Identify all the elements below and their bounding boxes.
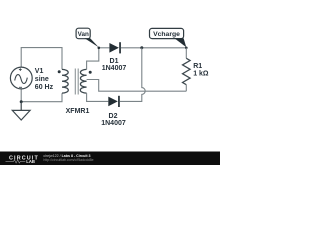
node Vcharge junction [185,47,188,50]
wire W8: D2 cathode up to junction (with hop over W6) [120,48,145,102]
svg-text:sine: sine [35,76,49,83]
R1 labels [193,63,209,77]
junction at V1 bottom / ground [20,100,23,103]
junction node at D1 output / D2 output [140,46,143,49]
D1 labels [102,58,127,72]
svg-text:XFMR1: XFMR1 [66,108,90,115]
wire W5: D1 cathode to Vcharge node [121,47,186,49]
transformer XFMR1 primary winding [62,69,68,93]
voltage source V1 [10,67,32,89]
svg-text:60 Hz: 60 Hz [35,84,54,91]
svg-text:V1: V1 [35,68,44,75]
svg-text:http://circuitlab.com/c/f5adcd: http://circuitlab.com/c/f5adcdd8e [43,158,93,162]
svg-text:1 kΩ: 1 kΩ [193,71,209,78]
wire W3: XFMR1 secondary top to node Van [87,48,99,70]
V1 value labels: V1 / sine / 60 Hz [35,68,54,91]
XFMR1 phasing dot primary [58,70,61,73]
footer CircuitLab logo [6,155,39,164]
wire W7: XFMR1 secondary bottom to D2 anode [87,93,109,101]
wire W6: XFMR1 center tap to R1 bottom [87,80,187,92]
diode D2 [108,96,119,107]
svg-text:R1: R1 [193,63,202,70]
node Van flag [76,28,99,47]
svg-text:LAB: LAB [26,159,35,164]
footer bar [0,152,220,166]
wire W1: V1 top to XFMR1 primary top [21,48,62,70]
ground [12,102,30,120]
diode D1 [109,42,120,53]
node Van junction [98,47,101,50]
wire W4: node Van to D1 anode [99,47,110,49]
svg-text:Vcharge: Vcharge [153,31,180,38]
svg-text:D2: D2 [109,113,118,120]
wire W2: V1 bottom to XFMR1 primary bottom [21,89,62,102]
node Vcharge flag [150,28,187,47]
D2 labels [101,113,126,127]
svg-text:Van: Van [78,31,89,38]
svg-text:1N4007: 1N4007 [102,65,127,72]
XFMR1 core lines [75,69,78,95]
transformer XFMR1 secondary winding [80,69,86,93]
XFMR1 phasing dot secondary [89,71,92,74]
svg-text:1N4007: 1N4007 [101,120,126,127]
svg-text:D1: D1 [110,58,119,65]
resistor R1 [183,48,191,91]
